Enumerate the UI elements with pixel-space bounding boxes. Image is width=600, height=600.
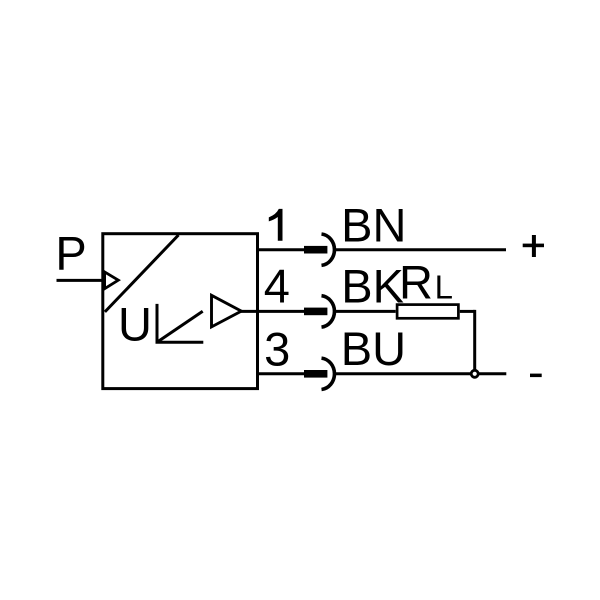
junction node xyxy=(471,370,478,377)
plug pin 3 xyxy=(304,370,327,378)
wire vertical drop xyxy=(473,310,476,374)
svg-text:P: P xyxy=(55,227,86,280)
svg-text:BN: BN xyxy=(341,199,406,252)
wire pin 3 xyxy=(258,372,305,375)
sensor symbol diagonal xyxy=(105,235,179,312)
wire resistor to bend xyxy=(460,310,475,313)
plug pin 1 xyxy=(304,246,327,254)
svg-text:BU: BU xyxy=(341,322,406,375)
svg-text:U: U xyxy=(118,297,152,350)
wire BK xyxy=(336,310,396,313)
P input arrowhead xyxy=(105,272,119,289)
characteristic curve axes xyxy=(157,304,203,342)
amplifier triangle xyxy=(212,295,242,327)
socket arc 3 xyxy=(322,358,335,389)
P input wire xyxy=(57,279,104,282)
sensor box U1 xyxy=(103,234,258,389)
socket arc 1 xyxy=(322,234,335,265)
svg-text:R: R xyxy=(399,255,433,308)
resistor RL xyxy=(397,305,458,319)
svg-text:BK: BK xyxy=(341,259,404,312)
wire pin 4 xyxy=(241,310,304,313)
plug pin 4 xyxy=(304,308,327,316)
minus terminal xyxy=(530,374,542,378)
pin 1 label xyxy=(269,209,283,241)
wire BU xyxy=(336,372,506,375)
socket arc 4 xyxy=(322,296,335,327)
svg-text:4: 4 xyxy=(264,259,290,312)
wire BN xyxy=(336,248,506,251)
characteristic curve line xyxy=(158,311,203,342)
svg-text:3: 3 xyxy=(264,323,290,376)
wire pin 1 xyxy=(258,248,305,251)
plus terminal xyxy=(523,244,544,248)
svg-text:L: L xyxy=(435,269,453,306)
